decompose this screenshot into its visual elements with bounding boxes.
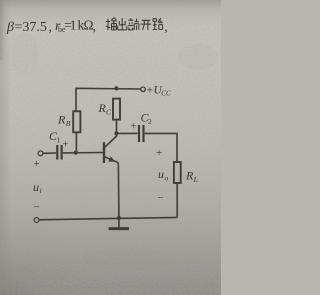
wire: C2 to RL top — [145, 133, 177, 162]
wire: collector node to C2 — [117, 132, 138, 134]
svg-text:u: u — [158, 167, 164, 181]
svg-text:,: , — [164, 20, 168, 35]
wire: C1 to base — [63, 152, 103, 154]
char: lu — [153, 18, 163, 29]
svg-text:−: − — [158, 192, 164, 204]
node: emitter/bottom rail junction dot — [117, 216, 121, 220]
svg-text:CC: CC — [161, 89, 171, 97]
svg-text:L: L — [193, 175, 198, 184]
wire: input to C1 — [43, 152, 56, 154]
svg-text:+: + — [156, 147, 162, 159]
capacitor C1 plates — [56, 145, 58, 160]
resistor RB body — [73, 111, 80, 132]
resistor RL body — [174, 162, 181, 183]
svg-text:o: o — [165, 173, 169, 182]
char: shu — [106, 18, 117, 30]
capacitor C2 plates — [138, 125, 140, 142]
char: duan — [128, 18, 139, 30]
svg-text:,: , — [49, 20, 53, 35]
char: kai — [141, 20, 152, 30]
resistor RC body — [113, 99, 120, 120]
wire: emitter down to ground — [117, 163, 120, 228]
node: collector junction dot — [114, 131, 118, 135]
paper background — [0, 0, 221, 295]
svg-text:+: + — [63, 140, 69, 151]
svg-text:+: + — [131, 122, 137, 133]
node: Vcc rail / Rc junction dot — [114, 86, 118, 90]
svg-text:1: 1 — [70, 18, 77, 33]
wire: top supply rail — [76, 88, 140, 111]
svg-text:1: 1 — [57, 135, 61, 144]
transistor Q1 emitter lead with arrow — [105, 157, 118, 163]
svg-text:+: + — [147, 83, 154, 97]
svg-text:,: , — [93, 20, 97, 35]
svg-text:=37.5: =37.5 — [15, 20, 47, 35]
node: base junction dot — [74, 151, 78, 155]
svg-text:B: B — [66, 119, 71, 128]
svg-text:2: 2 — [148, 117, 152, 126]
svg-text:−: − — [34, 202, 40, 214]
char: chu — [118, 18, 127, 30]
ground symbol — [109, 227, 129, 230]
wire: bottom rail — [39, 217, 177, 219]
heading: Chinese "shu chu duan kai lu," (drawn strokes) — [106, 18, 163, 30]
svg-text:i: i — [40, 186, 42, 195]
wire: RB bottom lead — [75, 132, 77, 153]
terminal: input bottom — [34, 218, 39, 223]
transistor Q1 collector lead — [105, 120, 117, 148]
svg-text:R: R — [57, 113, 66, 127]
svg-text:+: + — [34, 158, 40, 170]
transistor Q1 base bar — [103, 142, 105, 163]
wire: RL bottom lead — [176, 183, 178, 217]
terminal: input top — [38, 151, 43, 156]
svg-text:β: β — [6, 20, 14, 35]
terminal +Ucc — [141, 87, 146, 92]
svg-text:u: u — [33, 180, 39, 194]
